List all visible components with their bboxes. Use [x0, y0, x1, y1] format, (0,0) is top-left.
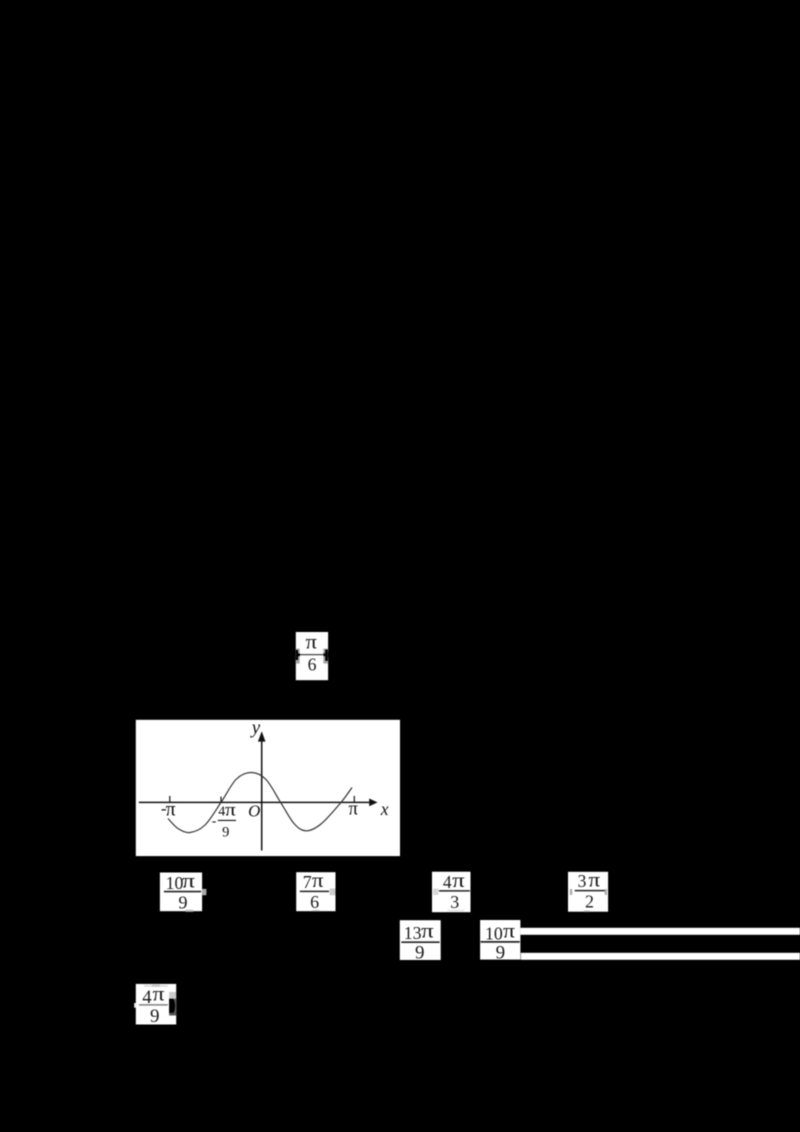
svg-text:3: 3 [578, 871, 587, 891]
svg-text:π: π [225, 800, 236, 820]
svg-text:9: 9 [415, 942, 425, 963]
svg-text:6: 6 [310, 892, 319, 912]
svg-text:6: 6 [308, 655, 317, 675]
svg-text:π: π [452, 871, 465, 892]
svg-text:y: y [250, 718, 261, 739]
svg-text:13: 13 [404, 923, 422, 943]
svg-text:2: 2 [585, 891, 594, 911]
svg-text:10: 10 [166, 873, 184, 893]
svg-text:-: - [212, 814, 217, 829]
svg-text:7: 7 [303, 872, 312, 892]
svg-text:9: 9 [222, 824, 229, 840]
svg-text:3: 3 [450, 892, 459, 912]
svg-text:π: π [166, 800, 176, 821]
svg-text:π: π [306, 633, 318, 654]
svg-text:10: 10 [485, 923, 503, 943]
svg-text:O: O [248, 801, 260, 820]
svg-text:4: 4 [443, 872, 452, 892]
svg-text:π: π [153, 984, 166, 1006]
svg-text:x: x [380, 799, 389, 819]
svg-text:π: π [503, 920, 516, 942]
svg-text:9: 9 [150, 1006, 160, 1027]
svg-text:π: π [349, 799, 359, 820]
svg-text:9: 9 [178, 892, 187, 912]
svg-text:π: π [588, 871, 600, 892]
svg-text:π: π [312, 870, 324, 892]
svg-text:π: π [182, 871, 196, 893]
svg-text:9: 9 [496, 943, 506, 964]
svg-text:π: π [421, 920, 434, 942]
